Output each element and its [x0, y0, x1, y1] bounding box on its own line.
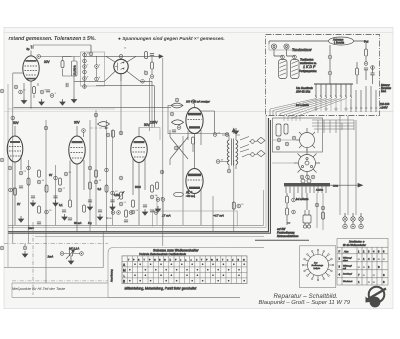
terminal c5: [83, 77, 87, 81]
faint top rule: [4, 32, 393, 34]
capacitor Ca: [46, 90, 50, 92]
terminal d2: [328, 71, 332, 75]
svg-text:mit: mit: [343, 267, 346, 270]
terminal L1 top: [281, 55, 285, 59]
svg-text:Anordnung: Anordnung: [110, 269, 114, 282]
oval label m1: [98, 122, 110, 127]
wire p2: [64, 254, 80, 259]
capacitor Fc3: [88, 200, 92, 202]
svg-text:auf 5W: auf 5W: [277, 227, 286, 231]
capacitor fcx4: [150, 210, 154, 212]
svg-text:10,9kHz: 10,9kHz: [73, 65, 77, 76]
wire vertical x152: [151, 86, 153, 128]
wire vertical x121: [120, 73, 122, 135]
resistor G1: [192, 137, 195, 144]
wire rail2 y85.7: [96, 86, 154, 128]
socket pins: [301, 165, 303, 167]
resistor fx4: [125, 210, 128, 217]
wire vertical x348: [347, 116, 349, 216]
svg-text:~: ~: [287, 221, 290, 227]
terminal bt: [119, 55, 123, 59]
resistor Rp: [365, 49, 368, 56]
resistor Rm1: [112, 130, 115, 137]
wire mid: [329, 45, 331, 84]
terminal g2b: [213, 133, 217, 137]
capacitor Fc5: [143, 205, 147, 207]
coil L1 hatch: [280, 61, 287, 76]
wire rö5 bottom: [133, 157, 145, 226]
svg-text:2mA: 2mA: [47, 255, 54, 259]
drop wires into osc: [284, 116, 300, 122]
ground ga2: [39, 99, 44, 105]
socket circle big: [299, 155, 316, 172]
ground gf2: [53, 200, 58, 206]
wire top cap run y45: [33, 45, 91, 52]
svg-text:30V: 30V: [44, 60, 51, 64]
socket pin row c: [311, 175, 315, 179]
svg-text:1mA: 1mA: [28, 226, 34, 230]
rotary tick dots: [302, 249, 334, 281]
svg-text:Blaupunkt – Groß – Super 11 W: Blaupunkt – Groß – Super 11 W 79: [259, 300, 351, 306]
svg-text:6V: 6V: [49, 173, 52, 177]
small circle s2: [307, 179, 311, 183]
svg-text:0,3: 0,3: [98, 187, 102, 191]
terminal d1: [328, 55, 332, 59]
wire vertical x149.5: [149, 78, 151, 131]
resistor fx1: [14, 188, 17, 195]
svg-text:rstand gemessen. Toleranzen ±: rstand gemessen. Toleranzen ± 5%.: [9, 36, 96, 42]
oval Ce1: [174, 192, 184, 196]
terminal mb2: [117, 211, 121, 215]
wire vertical x157: [156, 195, 158, 225]
comb teeth: [316, 84, 351, 97]
table dots: [129, 263, 245, 281]
capacitor C2: [66, 83, 68, 87]
wire vertical x340: [339, 116, 341, 216]
terminal f2: [8, 166, 12, 170]
oval label go1: [171, 103, 183, 108]
wire right seg y240: [255, 239, 309, 241]
tube Rö2 envelope (round): [114, 59, 128, 73]
wire anode feed: [201, 111, 215, 133]
drop contact marks: [350, 107, 377, 109]
tube Rö5 grids: [133, 148, 146, 158]
svg-text:196-52 kHz: 196-52 kHz: [296, 89, 311, 93]
svg-text:f. Bereich: f. Bereich: [334, 42, 345, 45]
ground gp2: [68, 258, 73, 264]
resistor P2 body: [70, 249, 73, 256]
terminal mb3: [129, 211, 133, 215]
wire bus A y225.3: [8, 190, 264, 225]
wire rö4 bottom: [70, 160, 84, 232]
terminal e5: [292, 198, 296, 202]
svg-text:100 V 28 mA weniger: 100 V 28 mA weniger: [186, 101, 210, 104]
wire transformer top: [305, 193, 309, 215]
svg-text:125V: 125V: [150, 121, 158, 125]
wire rö5 top: [138, 127, 140, 136]
svg-text:50 mA: 50 mA: [74, 221, 82, 225]
wire vertical x233.8: [233, 160, 235, 232]
capacitor fcx3: [124, 220, 128, 222]
terminal fl1: [19, 171, 23, 175]
wire top fan: [312, 120, 354, 129]
logo dot: [370, 297, 381, 308]
ground gg7: [155, 206, 160, 212]
Blaupunkt logo ring: [366, 287, 387, 308]
ground ga1: [21, 98, 26, 104]
terminal c9: [89, 52, 93, 56]
terminal x9: [119, 176, 123, 180]
wire vertical x12.8: [12, 73, 14, 243]
wire strip to arrow: [330, 184, 358, 186]
resistor F6: [105, 185, 108, 192]
svg-text:≈36 mA: ≈36 mA: [186, 194, 195, 198]
capacitor Fc7: [62, 210, 66, 212]
resistor F7: [120, 192, 123, 199]
speaker jack r2a: [343, 224, 347, 228]
wire to coil cans: [274, 49, 295, 56]
tube Rö5 anode bar: [134, 141, 145, 143]
terminal p4: [80, 252, 84, 256]
wire x323 drop: [322, 193, 324, 230]
jack J2 outer: [284, 44, 289, 49]
small circle s1: [301, 179, 305, 183]
wire to plugs: [249, 142, 257, 155]
wire vertical dashdot x33: [32, 222, 34, 295]
terminal p1: [364, 62, 368, 66]
wire can verticals: [85, 45, 97, 88]
wire vertical x213: [212, 196, 214, 232]
wire bus y56.5: [40, 56, 80, 58]
switch wafer circle: [300, 133, 315, 148]
wire rö3 top: [14, 126, 16, 136]
wire r4: [151, 57, 153, 74]
wire diagonal tr: [127, 56, 137, 62]
osc coil 2: [284, 124, 288, 134]
table grid frame: [122, 256, 247, 284]
tiny measurement numbers: [13, 48, 244, 213]
wire horiz y133.6 under tube6: [168, 133, 229, 135]
capacitor Fc6: [19, 186, 23, 188]
wire vertical x162.8 rail: [162, 58, 164, 246]
tube Rö4 grids: [71, 148, 84, 159]
ground gp5: [22, 251, 27, 257]
wire bf left: [63, 57, 75, 97]
arrow antenna: [159, 55, 163, 59]
terminal g4: [161, 198, 165, 202]
terminal x3: [94, 113, 98, 117]
terminal c4: [83, 70, 87, 74]
tube Rö5 envelope: [131, 137, 147, 163]
oval label go2: [172, 120, 184, 125]
wire vertical x28.5: [28, 160, 30, 243]
terminal x7: [54, 176, 58, 180]
wire top rail y56.4: [85, 55, 160, 57]
wire re drop: [286, 204, 288, 225]
capacitor Fc2: [53, 196, 57, 198]
terminal x4: [27, 166, 31, 170]
terminal x2: [44, 126, 48, 130]
terminal g3: [156, 198, 160, 202]
svg-text:5000: 5000: [135, 185, 141, 189]
osc terminal e4: [292, 136, 296, 140]
wire rö6 top: [168, 104, 195, 108]
terminal edge2: [0, 158, 4, 162]
terminal e317: [315, 203, 319, 207]
svg-text:Fernbedienung: Fernbedienung: [277, 230, 295, 234]
wire rö3 bottom: [15, 155, 21, 225]
terminal c8: [95, 77, 99, 81]
svg-text:G: G: [243, 259, 245, 261]
terminal b3: [144, 71, 148, 75]
wire jacks: [345, 213, 361, 224]
tube Rö6 anode bar: [188, 113, 201, 116]
drop wire d x270: [270, 109, 280, 116]
pot P2 arrow: [66, 250, 75, 260]
tube Rö1 grid lines: [25, 66, 38, 75]
capacitor fcx1: [37, 222, 41, 224]
comb drop verticals: [316, 98, 346, 111]
socket center: [305, 161, 309, 165]
resistor F2: [45, 185, 48, 192]
IF can 2 box: [139, 127, 160, 140]
terminal c7: [95, 65, 99, 69]
wire cq: [372, 66, 374, 85]
tube Rö7 anode bar: [188, 174, 201, 177]
svg-text:5p: 5p: [27, 47, 31, 51]
wire socket to bus: [272, 162, 299, 164]
wire strip drops: [287, 193, 302, 200]
arrow right of strip: [358, 183, 363, 187]
switch wafer spokes: [296, 128, 315, 151]
resistor Re2: [286, 208, 289, 215]
ground gc4: [71, 97, 76, 103]
rotary box: [300, 246, 336, 288]
arrow up at T1: [232, 128, 236, 134]
wire vertical x356: [355, 120, 357, 215]
transformer circle a: [303, 225, 306, 228]
capacitor Cp: [364, 68, 368, 70]
resistor F5: [95, 170, 98, 177]
table grid cols: [127, 256, 241, 284]
wire bus y267.5 bend: [4, 232, 103, 268]
terminal t2 bottom: [227, 169, 231, 173]
rotary circle: [308, 255, 329, 276]
osc terminal e3: [276, 146, 280, 150]
svg-text:0,1: 0,1: [59, 203, 63, 207]
circle before D1: [251, 140, 255, 144]
terminal x6: [105, 168, 109, 172]
socket pin row b: [306, 175, 310, 179]
svg-text:Fertigungstoler.: Fertigungstoler.: [299, 69, 317, 73]
drop wires right: [351, 86, 376, 112]
terminal mb4: [154, 211, 158, 215]
terminal g0: [175, 98, 179, 102]
wire bus D y236.3: [35, 235, 264, 237]
wire vertical x90: [89, 120, 91, 232]
coil L2 hatch: [292, 61, 299, 76]
terminal g5: [237, 204, 241, 208]
terminal a2: [19, 90, 23, 94]
capacitor fcx2: [68, 218, 72, 220]
capacitor C1 top: [31, 45, 33, 49]
ground gf3: [87, 204, 92, 210]
resistor R1: [33, 87, 36, 94]
svg-text:+240V: +240V: [380, 105, 388, 109]
tube Rö7 cathode bar: [189, 187, 200, 189]
resistor Rq: [356, 68, 359, 75]
svg-text:50V: 50V: [13, 121, 20, 125]
connector strip bar: [284, 183, 330, 186]
wire r1 down: [33, 95, 35, 99]
comb contact marks: [315, 96, 352, 98]
wire vertical x96: [95, 110, 97, 225]
tube Rö4 anode bar: [72, 141, 83, 143]
capacitor Fc4: [110, 200, 114, 202]
coil can L1: [279, 60, 288, 79]
tube Rö3 grids: [9, 147, 21, 157]
wire vertical x46: [45, 120, 47, 283]
wire T1 leads: [220, 135, 240, 169]
svg-text:ohne: ohne: [343, 260, 349, 262]
jack J1 outer: [271, 44, 276, 49]
wire dash arrow y128: [90, 127, 105, 129]
wire wafer to bus: [272, 139, 300, 141]
output transformer T1 right winding: [236, 140, 238, 165]
resistor R4: [151, 62, 154, 69]
wire rq: [357, 62, 366, 84]
terminal c2: [83, 59, 87, 63]
terminal fl7: [150, 195, 154, 199]
wire bus C1 dark y231.7: [8, 118, 269, 232]
resistor e323: [322, 212, 325, 219]
fan wires: [270, 99, 346, 119]
connector strip teeth: [286, 186, 326, 193]
svg-text:End.: End.: [381, 89, 387, 93]
wire bus y107.3: [14, 106, 172, 108]
terminal L2 top: [293, 55, 297, 59]
terminal e6: [292, 210, 296, 214]
wire g drop: [162, 202, 164, 225]
tube Rö1 anode bar: [26, 60, 37, 62]
terminal g1: [170, 112, 174, 116]
wire vertical x12 low: [11, 283, 13, 298]
wire vertical x112.5: [112, 130, 114, 225]
terminal c3: [83, 65, 87, 69]
svg-text:Werkstatt: Werkstatt: [343, 280, 353, 283]
ground ga3: [60, 99, 65, 105]
terminal g1b: [177, 126, 181, 130]
svg-text:für die Wellenschalter: für die Wellenschalter: [343, 244, 366, 247]
svg-text:17 mA: 17 mA: [162, 214, 171, 218]
terminal m3: [106, 133, 110, 137]
svg-text:A.LSch: A.LSch: [316, 189, 324, 192]
tube Rö7 grid: [188, 179, 202, 181]
terminal fl8: [45, 210, 49, 214]
wire rö4 top: [77, 126, 84, 137]
resistor R3: [145, 52, 148, 59]
IF can box outline: [81, 52, 105, 86]
osc terminal e1: [277, 138, 281, 142]
right table grid: [337, 247, 388, 278]
svg-text:G: G: [164, 259, 166, 261]
terminal g2c: [225, 133, 229, 137]
diamond plug D2: [257, 150, 265, 156]
wire diagonal br: [127, 71, 141, 81]
svg-text:Reparatur – Schaltbild.: Reparatur – Schaltbild.: [274, 293, 338, 300]
svg-text:knöpfe: knöpfe: [314, 268, 321, 270]
wire bus y283: [12, 282, 108, 284]
resistor Re1: [286, 196, 289, 203]
terminal b4: [150, 75, 154, 79]
wire diagonal tl: [106, 56, 116, 62]
antenna oval: [329, 37, 354, 45]
wire bus B y227.3: [8, 116, 266, 228]
resistor fx5: [156, 182, 159, 189]
wire x317 drop: [316, 193, 318, 228]
tube Rö3 anode bar: [10, 141, 20, 143]
speaker jack r2b: [351, 224, 355, 228]
terminal br1: [141, 80, 145, 84]
terminal a5: [14, 85, 18, 89]
bandfilter box BF1: [72, 61, 78, 76]
osc coil small: [276, 124, 281, 136]
terminal f1: [82, 129, 86, 133]
wire g1b: [192, 145, 194, 152]
ground gf7: [62, 214, 67, 220]
pot arrow F7: [118, 191, 125, 200]
speaker jack r2c: [359, 224, 363, 228]
wire bus y297.5: [12, 297, 240, 299]
resistor fx2: [38, 206, 41, 213]
svg-text:Aus: Aus: [343, 250, 349, 254]
fan verticals: [318, 120, 354, 133]
wire vertical x55.5: [55, 165, 57, 225]
terminal x5: [88, 166, 92, 170]
svg-text:G: G: [211, 259, 213, 261]
terminal g2: [174, 146, 178, 150]
svg-text:0,5M: 0,5M: [114, 193, 120, 197]
svg-text:Mittelstellung, Metastellu: Mittelstellung, Metastellung, Punkt tief…: [125, 287, 197, 291]
terminal fl2: [37, 180, 41, 184]
jack J2 inner: [286, 46, 288, 48]
transformer prim box: [303, 215, 311, 223]
terminal c1: [83, 53, 87, 57]
extra terminals/components pass: [11, 113, 164, 224]
svg-text:1 K D F: 1 K D F: [303, 65, 316, 69]
terminal fl6: [131, 210, 135, 214]
resistor F8: [132, 200, 135, 207]
tube Rö2 arrows: [123, 62, 125, 70]
wire top row: [269, 41, 366, 49]
svg-text:B: B: [123, 279, 125, 283]
tube Rö6 cathode bar: [189, 126, 200, 128]
ground gf1: [30, 200, 35, 206]
svg-text:G: G: [154, 259, 156, 261]
socket pin row: [300, 175, 304, 179]
svg-text:30V: 30V: [74, 121, 81, 125]
wire vertical x183: [182, 136, 184, 225]
comb drop circles: [315, 108, 347, 110]
tube Rö4 envelope: [69, 136, 85, 164]
arrow head y128: [105, 127, 109, 130]
coil can L2: [291, 60, 300, 79]
svg-text:Pol: Pol: [364, 40, 369, 44]
X cross wires: [170, 130, 188, 165]
wire bus C2 dark y233.2: [8, 120, 271, 233]
transformer leads: [305, 223, 309, 225]
speaker jack r1b: [351, 217, 355, 221]
